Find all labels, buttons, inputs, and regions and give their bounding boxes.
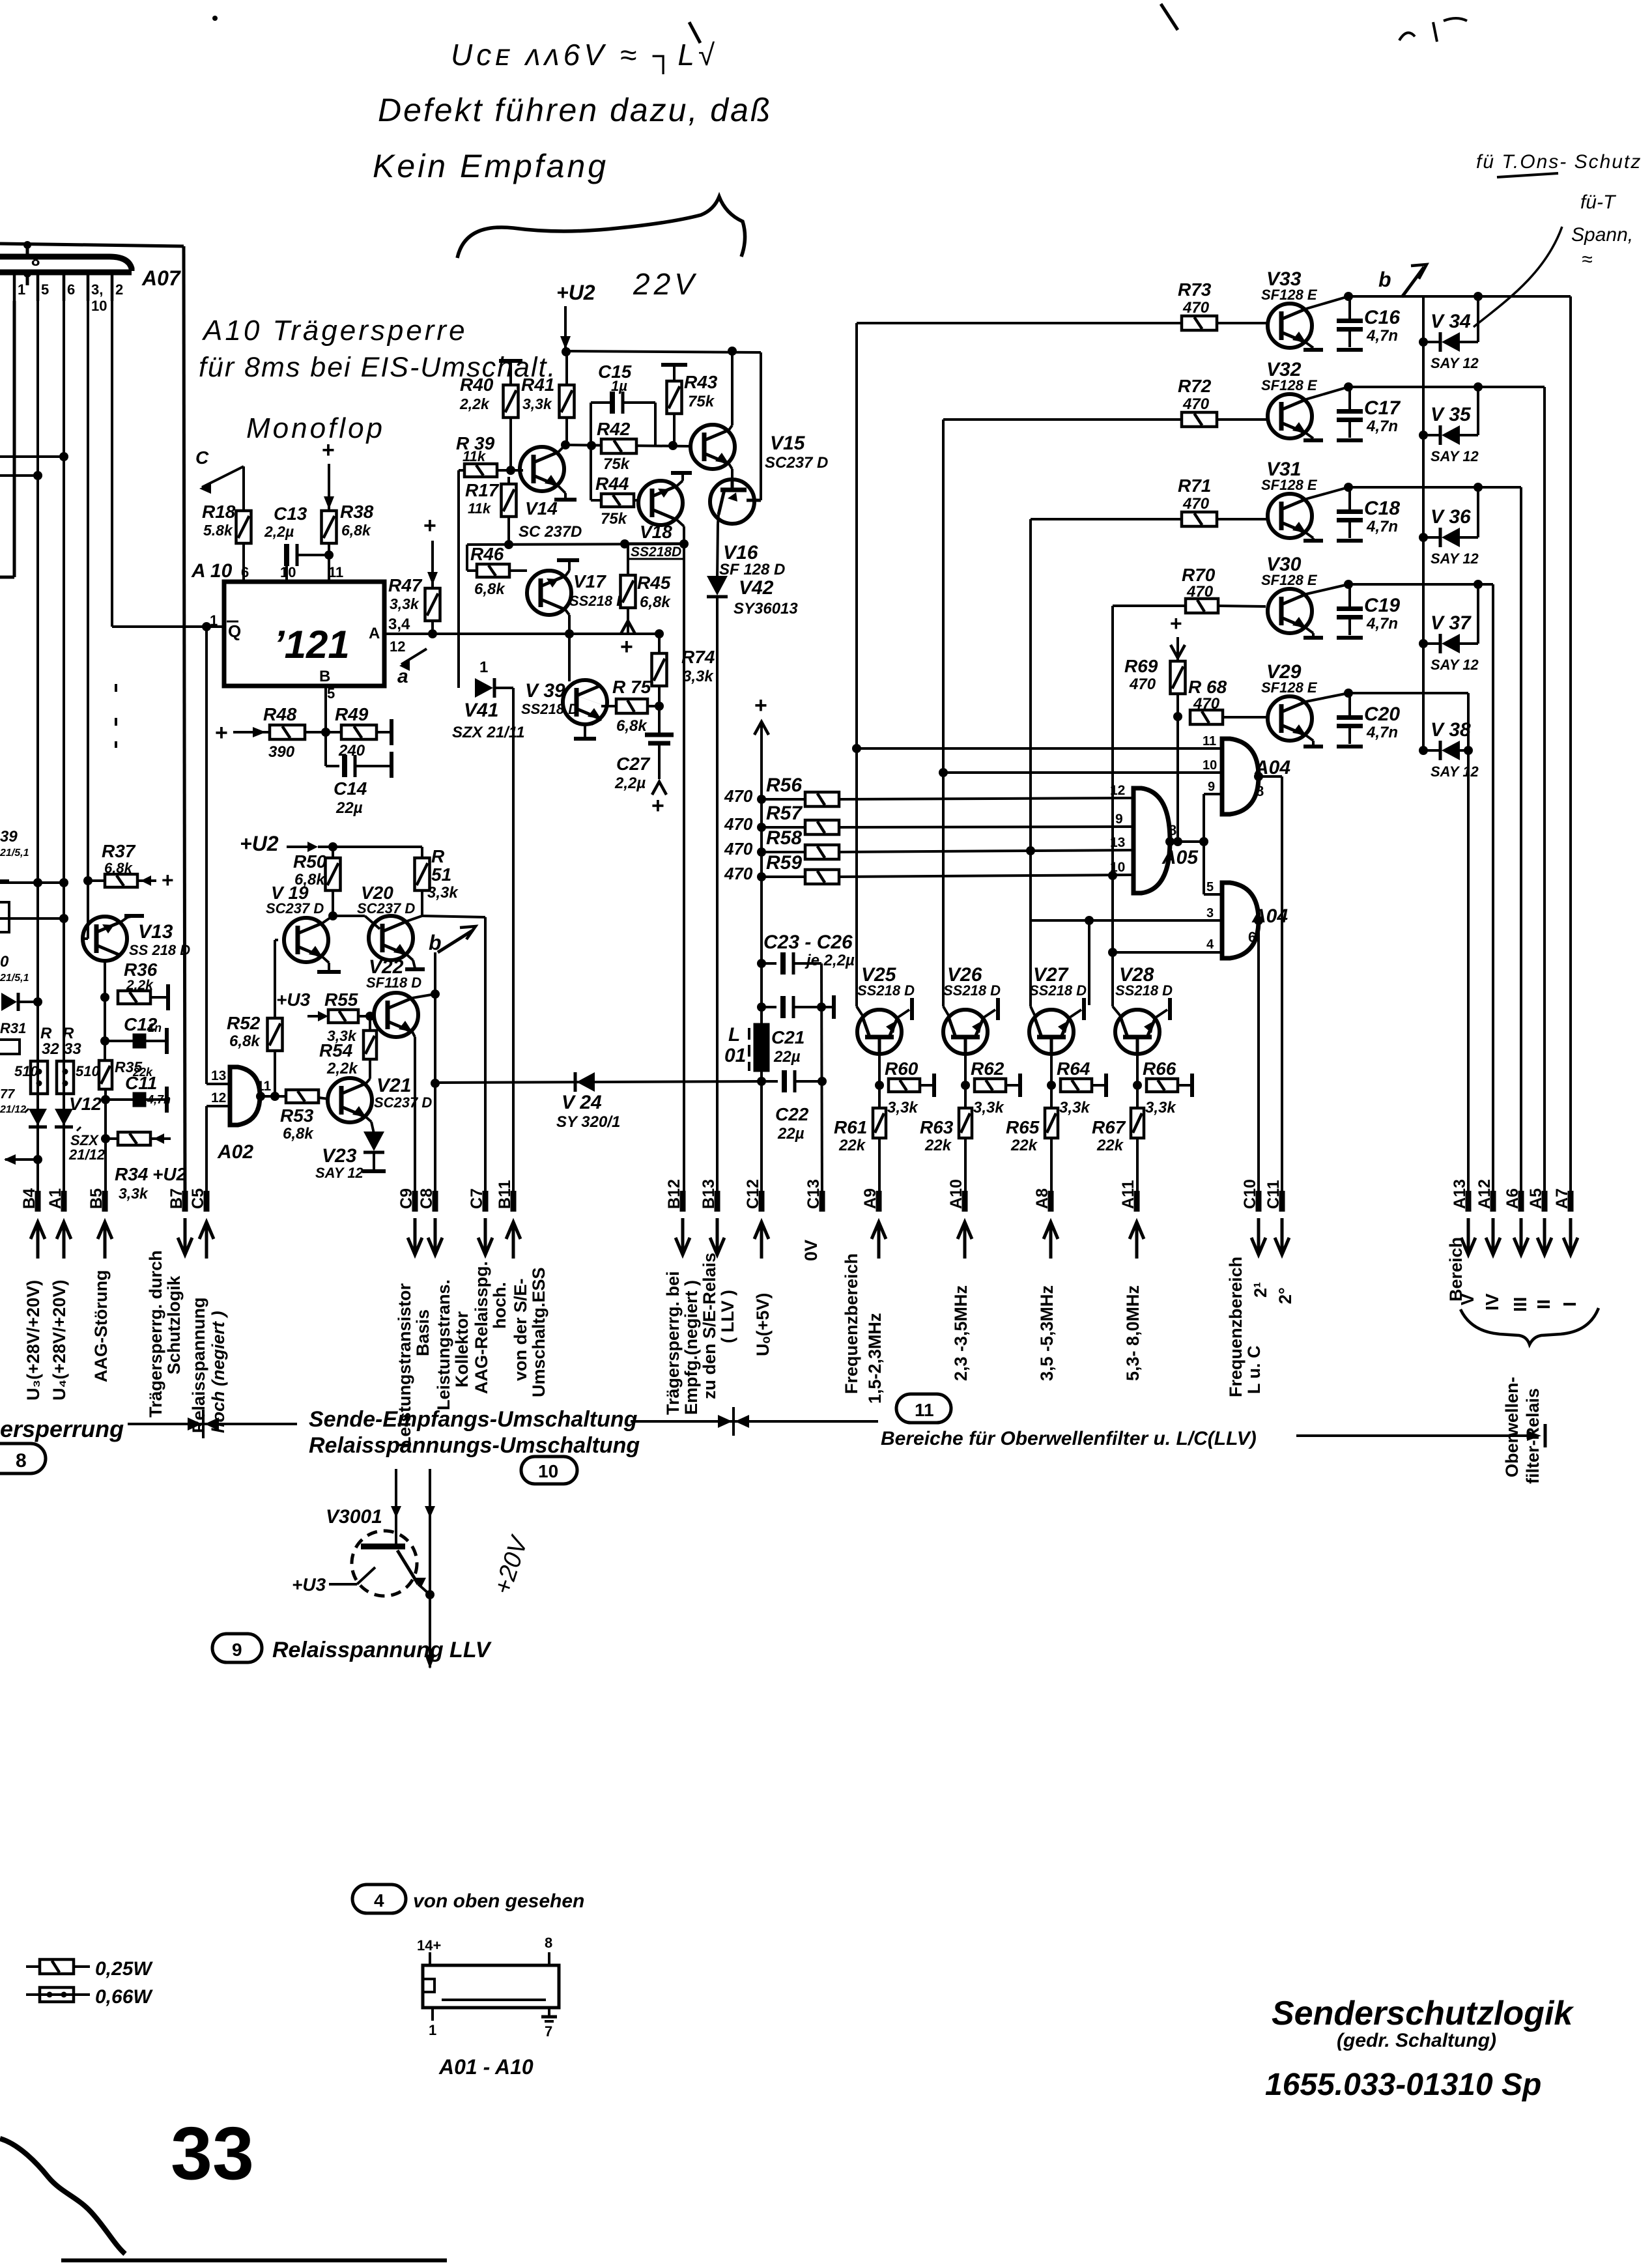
connector tick C5: [204, 1191, 210, 1212]
svg-text:R64: R64: [1057, 1059, 1090, 1079]
connector tick C10: [1256, 1191, 1262, 1212]
wire V20 collector to node: [407, 916, 422, 921]
wire row V32 to corner: [1348, 386, 1545, 388]
svg-text:5: 5: [327, 685, 335, 702]
wire row V30 to corner: [1348, 583, 1493, 586]
wire collector V26: [964, 1054, 967, 1107]
svg-text:A6: A6: [1503, 1188, 1522, 1209]
wire from A07 pin2 down to monoflop Q-bar line: [111, 301, 113, 627]
svg-text:Empfg.(negiert ): Empfg.(negiert ): [681, 1280, 701, 1415]
wire V17 collector: [565, 610, 569, 615]
V16 collector inside: [719, 490, 724, 515]
wire A02 pin12: [206, 1105, 230, 1107]
wire R57 to A05 pin9: [839, 827, 1133, 827]
capacitor C16: [1337, 321, 1363, 330]
arrow down A7: [1563, 1218, 1578, 1255]
svg-text:75k: 75k: [601, 510, 628, 528]
resistor R69: [1171, 661, 1186, 694]
wire V22 emitter: [412, 1032, 415, 1037]
wire R54 to node: [369, 1016, 371, 1031]
diode V42: [707, 576, 728, 597]
svg-text:B13: B13: [700, 1179, 718, 1209]
wire to V 35: [1423, 434, 1440, 436]
wire to C21: [762, 1006, 776, 1008]
svg-text:4: 4: [374, 1890, 384, 1911]
svg-text:R50: R50: [293, 851, 327, 872]
terminator C21: [832, 995, 836, 1019]
wire R63 to A10: [964, 1139, 967, 1204]
svg-text:U₄(+28V/+20V): U₄(+28V/+20V): [50, 1280, 69, 1401]
transistor V18: [638, 481, 683, 525]
svg-text:Relaisspannungs-Umschaltung: Relaisspannungs-Umschaltung: [309, 1433, 640, 1458]
wire base into V28: [1113, 1006, 1122, 1018]
svg-text:L: L: [728, 1024, 740, 1046]
capacitor C11 body: [134, 1093, 145, 1106]
svg-text:R69: R69: [1124, 656, 1158, 676]
connector A07 bus bar upper: [0, 257, 132, 271]
svg-text:6,8k: 6,8k: [341, 522, 371, 539]
stray handwritten stroke top: [1161, 4, 1178, 30]
ground bar C19: [1337, 636, 1363, 640]
resistor R55: [328, 1010, 358, 1023]
arrow up A8: [1044, 1222, 1058, 1259]
svg-text:SC237 D: SC237 D: [374, 1094, 432, 1111]
connector tick C13: [819, 1191, 825, 1212]
divider line left section: [128, 1423, 297, 1425]
svg-text:R34: R34: [115, 1164, 149, 1184]
connector tick C8: [433, 1191, 438, 1212]
connector tick B4: [35, 1191, 41, 1212]
wire V19 emitter: [322, 957, 329, 963]
wire bus to R41: [565, 352, 568, 385]
svg-text:SAY 12: SAY 12: [1431, 355, 1479, 371]
wire C15 loop left: [590, 403, 592, 446]
wire row V31 vertical down: [1520, 487, 1522, 1204]
wire A04 pin3 line: [1031, 919, 1222, 922]
svg-text:L u. C: L u. C: [1244, 1345, 1264, 1394]
svg-text:SS218 D: SS218 D: [943, 982, 1001, 999]
svg-text:5.8k: 5.8k: [203, 522, 233, 539]
wire row V33 to corner: [1348, 295, 1571, 298]
resistor R46: [477, 564, 509, 577]
A07 block top boundary line: [0, 244, 184, 246]
svg-text:3,3k: 3,3k: [327, 1027, 357, 1044]
arrow up C12: [754, 1222, 769, 1259]
resistor R66: [1146, 1079, 1178, 1092]
terminator C12: [165, 1028, 169, 1054]
resistor R49: [341, 725, 377, 739]
inductor L01 core: [754, 1024, 769, 1071]
svg-text:470: 470: [724, 814, 753, 834]
transistor V15: [691, 425, 735, 469]
wire R47 bottom to A line: [431, 621, 434, 634]
svg-text:3,3k: 3,3k: [1145, 1099, 1176, 1117]
terminator right section: [1544, 1424, 1547, 1447]
wire V18 collector: [677, 520, 684, 526]
wire from left edge y1355: [0, 881, 64, 884]
wire row V29 vertical down: [1467, 693, 1470, 750]
wire to R40: [509, 361, 512, 385]
IC package notch: [423, 1979, 434, 1992]
wire R37 right: [137, 879, 156, 882]
wire V15 collector: [729, 425, 732, 430]
wire V16 collector to V42: [717, 524, 718, 578]
wire V21 emitter: [366, 1117, 371, 1122]
connector tick C7: [483, 1191, 489, 1212]
svg-text:11: 11: [257, 1079, 272, 1094]
L01 dash 2: [748, 1045, 750, 1057]
IC package A01-A10 body: [423, 1965, 559, 2008]
wire A line to R74: [658, 634, 661, 653]
svg-text:2: 2: [115, 281, 123, 298]
wire V 36 up to row: [1477, 487, 1479, 537]
svg-text:Frequenzbereich: Frequenzbereich: [1226, 1257, 1246, 1397]
partial diode left edge: [1, 993, 17, 1011]
wire V32 emitter: [1306, 433, 1313, 438]
svg-text:C22: C22: [775, 1104, 809, 1124]
legend 0,66W lead: [26, 1993, 90, 1996]
svg-text:470: 470: [724, 839, 753, 859]
wire R40 to base line: [509, 418, 512, 470]
svg-text:+: +: [620, 634, 633, 659]
svg-text:SZX 21/11: SZX 21/11: [452, 724, 525, 741]
svg-text:V17: V17: [573, 571, 606, 591]
divider marker left a: [188, 1417, 202, 1430]
diode V24: [575, 1072, 595, 1092]
svg-text:39: 39: [0, 828, 18, 846]
svg-text:SF118 D: SF118 D: [366, 975, 421, 991]
svg-text:9: 9: [1115, 812, 1123, 827]
ground bar C16: [1337, 348, 1363, 352]
box around V18 type: [628, 543, 684, 559]
wire collector V27: [1050, 1054, 1053, 1107]
wire R61 to A9: [878, 1139, 881, 1204]
A07 pin 8 tick upper: [26, 244, 29, 257]
wire B7 vertical from A07 to B7: [184, 246, 185, 1204]
wire Q-bar line to A07 pin2: [112, 625, 224, 628]
wire base line V15: [565, 445, 689, 446]
wire R69 down to A05 output: [1176, 694, 1179, 842]
svg-text:470: 470: [1182, 495, 1210, 513]
ground bar C17: [1337, 438, 1363, 442]
svg-text:Sende-Empfangs-Umschaltung: Sende-Empfangs-Umschaltung: [309, 1407, 638, 1432]
V3001 collector bar: [361, 1544, 405, 1550]
wire C22 right: [796, 1080, 822, 1083]
svg-text:V 24: V 24: [562, 1092, 602, 1113]
wire R39 left down to V41: [457, 470, 460, 688]
svg-text:+: +: [651, 793, 664, 818]
resistor R40: [504, 385, 519, 418]
V3001 base lead: [357, 1567, 375, 1584]
svg-text:Trägersperrg. durch: Trägersperrg. durch: [146, 1250, 165, 1417]
svg-text:470: 470: [1186, 583, 1214, 601]
arrowhead b: [460, 926, 476, 939]
transistor V14: [520, 447, 564, 491]
connector tick B7: [182, 1191, 188, 1212]
wire from A07 pin 3/10 down to V13 base: [87, 301, 89, 939]
svg-text:C8: C8: [418, 1188, 436, 1209]
svg-text:0,25W: 0,25W: [95, 1958, 153, 1980]
connector tick C11: [1279, 1191, 1285, 1212]
wire V15 emitter: [729, 464, 732, 469]
wire V31 collector to row: [1306, 487, 1348, 499]
A07 pin stub 5: [36, 272, 40, 301]
arrowhead b top right: [1411, 264, 1427, 279]
svg-text:13: 13: [1110, 835, 1125, 850]
svg-text:33: 33: [171, 2112, 254, 2195]
handwritten scribble top right: [1399, 18, 1467, 42]
svg-text:+: +: [322, 438, 335, 463]
svg-text:10: 10: [1203, 758, 1217, 773]
wire R41 to node: [565, 418, 568, 445]
arrow up A1: [57, 1222, 71, 1259]
svg-text:A 10: A 10: [191, 560, 233, 582]
resistor R37: [105, 874, 137, 887]
svg-text:6,8k: 6,8k: [229, 1032, 261, 1050]
terminator bar R49: [390, 719, 393, 745]
svg-text:C27: C27: [616, 754, 651, 774]
A07 pin 8 tick lower: [26, 272, 29, 285]
connector tick B12: [680, 1191, 686, 1212]
junction V 35 left: [1419, 431, 1428, 440]
junction V 36 left: [1419, 533, 1428, 542]
wire V30 collector to row: [1306, 584, 1348, 594]
transistor V39: [563, 680, 607, 724]
svg-text:( LLV ): ( LLV ): [718, 1290, 737, 1343]
wire plus arrow to R48: [233, 731, 263, 733]
svg-text:Senderschutzlogik: Senderschutzlogik: [1272, 1995, 1574, 2032]
wire V3001 emitter to LLV: [418, 1584, 430, 1595]
svg-text:V14: V14: [525, 498, 558, 519]
resistor R73: [1182, 316, 1217, 330]
svg-text:11: 11: [1203, 734, 1216, 748]
svg-text:SC237 D: SC237 D: [266, 900, 324, 917]
wire V 35 right: [1460, 434, 1478, 436]
wire V13 emitter: [121, 917, 128, 922]
svg-text:fü T.Ons- Schutz: fü T.Ons- Schutz: [1476, 151, 1642, 173]
wire R47 top: [431, 541, 434, 588]
svg-text:8: 8: [1169, 822, 1176, 838]
svg-text:0: 0: [0, 953, 9, 971]
oval tag 8: [0, 1444, 46, 1473]
svg-text:21/5,1: 21/5,1: [0, 973, 29, 984]
svg-text:’121: ’121: [274, 623, 350, 666]
junction R58 left: [757, 847, 766, 857]
divider marker mid b: [735, 1415, 749, 1428]
wire node to V20 base: [333, 915, 365, 917]
wire V42 to B13: [716, 597, 719, 1204]
divider line middle section: [631, 1420, 878, 1423]
diode V 34: [1440, 332, 1460, 352]
arrow down into R69: [1171, 645, 1185, 658]
svg-text:≈: ≈: [1582, 249, 1592, 270]
wire Uo(+5V) rail C12 column: [760, 724, 763, 1204]
svg-text:11: 11: [915, 1400, 934, 1420]
svg-text:+U2: +U2: [240, 832, 279, 855]
connector tick A10: [962, 1191, 968, 1212]
svg-text:C18: C18: [1364, 498, 1400, 519]
divider marker mid a: [718, 1415, 732, 1428]
capacitor C27 plate2: [648, 741, 670, 746]
svg-text:R41: R41: [521, 375, 554, 395]
wire down to C14: [324, 732, 327, 766]
wire pin5 B down: [324, 686, 327, 732]
ground bar C20: [1337, 745, 1363, 748]
wire to R54: [369, 1060, 371, 1079]
svg-text:SF128 E: SF128 E: [1261, 477, 1318, 493]
wire to V 38: [1423, 749, 1440, 752]
power bar V28: [1168, 998, 1172, 1020]
wire V18 collector to node: [683, 526, 685, 544]
legend 0,25W lead: [26, 1965, 90, 1968]
wire +U2 bus: [565, 351, 761, 352]
arrow up B4: [31, 1222, 45, 1259]
svg-text:470: 470: [1193, 695, 1220, 713]
arrow up B5: [98, 1222, 112, 1259]
wire feed to R71: [1031, 518, 1182, 520]
resistor R43: [667, 381, 682, 414]
svg-text:2,2k: 2,2k: [459, 395, 490, 412]
svg-text:V41: V41: [464, 700, 498, 721]
svg-text:6,8k: 6,8k: [616, 717, 648, 735]
wire base line to A04 pin10: [943, 771, 1222, 774]
svg-text:3: 3: [1206, 906, 1214, 920]
svg-text:32: 32: [42, 1040, 59, 1058]
L01 dash 3: [748, 1062, 750, 1071]
wire V23 down: [373, 1152, 375, 1170]
svg-text:R: R: [431, 846, 445, 866]
wire R74 to node: [658, 686, 661, 706]
svg-text:SS218 D: SS218 D: [569, 593, 627, 609]
svg-text:V21: V21: [377, 1075, 411, 1096]
wire C9 vertical: [414, 1037, 416, 1204]
svg-text:0V: 0V: [801, 1240, 821, 1261]
svg-text:470: 470: [724, 786, 753, 806]
capacitor C23: [783, 952, 793, 975]
connector tick C12: [759, 1191, 765, 1212]
arrowhead C: [199, 483, 211, 494]
wire V13 collector down: [104, 961, 106, 1061]
wire pin10 up to C13: [285, 565, 288, 582]
wire R39 to V14 base: [497, 469, 523, 472]
wire down to A04 pin5: [1203, 842, 1205, 894]
wire to V 37: [1423, 642, 1440, 645]
svg-text:R40: R40: [460, 375, 494, 395]
arrowhead right section: [1527, 1430, 1541, 1441]
wire C10 vertical: [1257, 920, 1260, 1204]
resistor R48: [270, 725, 305, 739]
wire B4 line (A07 pin5 to B4): [36, 301, 39, 1204]
svg-text:R42: R42: [597, 419, 631, 439]
transistor V19: [284, 918, 328, 962]
wire V24 relay line: [435, 1081, 762, 1083]
svg-text:6,8k: 6,8k: [640, 593, 671, 611]
svg-text:11k: 11k: [468, 500, 492, 517]
svg-text:+: +: [754, 693, 767, 718]
wire A output line: [384, 633, 659, 635]
svg-text:V12: V12: [69, 1094, 102, 1114]
diode V 37: [1440, 634, 1460, 653]
svg-text:II: II: [1533, 1299, 1554, 1309]
arrowhead into R34: [154, 1133, 164, 1144]
capacitor C19: [1337, 609, 1363, 618]
wire to C22: [762, 1080, 778, 1083]
V3001 emitter: [397, 1550, 418, 1584]
svg-text:R 75: R 75: [612, 677, 651, 697]
wire V17 emitter: [565, 571, 569, 576]
svg-text:C20: C20: [1364, 704, 1400, 725]
svg-text:V18: V18: [640, 522, 672, 542]
svg-text:R72: R72: [1178, 376, 1212, 396]
svg-text:6,8k: 6,8k: [104, 860, 134, 876]
svg-text:10: 10: [1110, 860, 1125, 875]
svg-text:V 34: V 34: [1431, 311, 1471, 332]
transistor V27: [1029, 1010, 1074, 1054]
wire V39 emitter: [591, 719, 601, 724]
wire to C18: [1348, 487, 1351, 511]
svg-text:V13: V13: [138, 921, 173, 943]
junction R56 left: [757, 795, 766, 804]
svg-text:A8: A8: [1033, 1188, 1051, 1209]
svg-text:(gedr. Schaltung): (gedr. Schaltung): [1337, 2030, 1496, 2051]
svg-text:III: III: [1510, 1297, 1530, 1312]
IC U-A10 monoflop '121 box: [224, 582, 384, 686]
svg-text:3,3k: 3,3k: [390, 595, 420, 612]
svg-text:+: +: [162, 868, 174, 892]
svg-text:a: a: [397, 666, 408, 687]
wire R50 to node: [332, 890, 334, 916]
wire R70 to V30 base: [1218, 606, 1266, 606]
svg-text:9: 9: [1208, 780, 1215, 794]
transistor V31: [1268, 494, 1312, 538]
svg-text:R57: R57: [766, 803, 803, 824]
wire R75 to node: [648, 705, 659, 707]
connector A07 bus bar lower: [0, 270, 132, 276]
wire V20 collector node to C7 corner: [422, 916, 485, 917]
connector tick B5: [102, 1191, 108, 1212]
wire into V13 base: [83, 937, 88, 940]
wire from left edge y1410: [0, 917, 64, 920]
svg-text:A10: A10: [947, 1179, 965, 1209]
terminator R60: [932, 1074, 936, 1097]
wire Q-bar down to A02 pin13: [205, 627, 208, 1084]
ground bar C18: [1337, 539, 1363, 543]
svg-text:3,3k: 3,3k: [522, 395, 552, 412]
capacitor C18: [1337, 512, 1363, 520]
terminator bar C14: [390, 752, 393, 778]
wire C15 right: [624, 401, 655, 404]
svg-text:6,8k: 6,8k: [283, 1125, 314, 1143]
wire V27 base feed vertical: [1029, 519, 1032, 1006]
wire C8 vertical (b line): [434, 952, 436, 1204]
svg-text:hoch.: hoch.: [490, 1282, 509, 1329]
power bar V25: [910, 998, 914, 1020]
svg-text:21/5,1: 21/5,1: [0, 847, 29, 859]
svg-text:4,7n: 4,7n: [1366, 518, 1398, 535]
svg-text:V23: V23: [322, 1145, 357, 1167]
wire to V3001 collector: [395, 1469, 397, 1546]
svg-text:8: 8: [545, 1935, 552, 1951]
wire V22 collector to b line: [412, 994, 435, 998]
wire C11 right: [145, 1098, 167, 1101]
arrow up A11: [1130, 1222, 1144, 1259]
svg-text:22k: 22k: [1010, 1137, 1038, 1154]
wire node to C27: [658, 706, 661, 733]
wire V39 collector to R75: [601, 705, 618, 707]
transistor V30: [1268, 589, 1312, 633]
svg-text:470: 470: [1129, 676, 1156, 693]
wire R49 right: [377, 731, 392, 733]
